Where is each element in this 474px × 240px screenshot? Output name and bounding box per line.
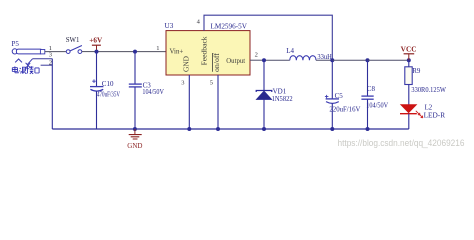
capacitor C10 bottom plate (90, 89, 103, 91)
wire C5 branch top (331, 60, 333, 98)
svg-text:3: 3 (181, 79, 184, 86)
junction ground VD1 (262, 127, 266, 131)
svg-text:220uF/16V: 220uF/16V (329, 106, 360, 113)
svg-text:GND: GND (182, 56, 190, 72)
wire C10 branch bottom (96, 91, 98, 129)
power +6V stub (96, 45, 98, 51)
svg-text:5: 5 (210, 79, 213, 86)
svg-text:L4: L4 (286, 47, 294, 55)
capacitor C10 top plate (90, 86, 103, 88)
svg-text:Feedback: Feedback (201, 36, 209, 66)
svg-text:C8: C8 (367, 85, 376, 93)
capacitor C8 bottom plate (361, 98, 373, 100)
svg-text:GND: GND (127, 142, 142, 150)
LED L2 cathode bar (400, 113, 417, 115)
wire U3 pin2 to VD1 node (250, 59, 264, 61)
connector P5 tip arrowhead (26, 63, 31, 68)
ground symbol stem (134, 129, 136, 134)
capacitor C5 plus sign (325, 95, 329, 98)
svg-text:C5: C5 (335, 92, 344, 100)
op-amp U3 regulator body (166, 31, 250, 75)
svg-text:+6V: +6V (89, 36, 103, 44)
svg-text:C3: C3 (143, 81, 152, 89)
wire C10 branch top (96, 52, 98, 87)
svg-text:R9: R9 (412, 67, 421, 75)
LED L2 triangle (401, 105, 416, 113)
wire left return vertical (51, 59, 53, 129)
wire input rail to U3 (97, 51, 167, 53)
switch SW1 right contact (78, 50, 82, 54)
wire VD1 cathode (263, 60, 265, 90)
svg-text:VCC: VCC (401, 46, 417, 54)
wire R9 to LED (408, 85, 410, 105)
svg-text:LED-R: LED-R (424, 113, 446, 120)
svg-text:104/50V: 104/50V (142, 89, 164, 96)
wire C3 branch top (134, 52, 136, 84)
junction +6V node (95, 50, 99, 54)
wire C5 branch bottom (331, 103, 333, 129)
junction output at VD1 (262, 58, 266, 62)
wire C8 node to VCC node (368, 59, 409, 61)
capacitor C3 top plate (129, 83, 142, 85)
svg-text:SW1: SW1 (66, 36, 80, 44)
wire feedback pin4 loop (204, 15, 332, 60)
LED L2 emission arrows (416, 111, 423, 118)
wire VD1 node to inductor (264, 59, 290, 61)
capacitor C8 top plate (361, 95, 373, 97)
capacitor C5 top plate (326, 98, 339, 100)
diode VD1 triangle (257, 91, 272, 99)
wire U3 pin5 to ground rail (217, 75, 219, 129)
wire VD1 anode to ground rail (263, 99, 265, 129)
wire U3 pin3 to ground rail (188, 75, 190, 129)
svg-text:L2: L2 (425, 105, 433, 112)
svg-text:2: 2 (255, 51, 258, 58)
connector P5 tip arrow shaft (27, 59, 32, 65)
power VCC bar (404, 53, 415, 55)
resistor R9 body (405, 67, 412, 85)
svg-text:C10: C10 (102, 80, 114, 88)
junction ground pin3 (187, 127, 191, 131)
ground symbol bars (129, 135, 142, 139)
connector P5 pin square (40, 50, 44, 54)
svg-text:3: 3 (49, 52, 52, 59)
wire C8 branch top (367, 60, 369, 96)
svg-text:104/50V: 104/50V (366, 103, 388, 110)
wire pin2 horizontal (41, 64, 53, 66)
inductor L4 coil (290, 56, 316, 61)
power +6V bar (92, 44, 101, 46)
capacitor C10 plus sign (92, 79, 96, 83)
power VCC stub (408, 54, 410, 60)
wire input rail left segment (45, 51, 67, 53)
wire inductor to C5 node (316, 59, 332, 61)
junction ground C3 (133, 127, 137, 131)
switch SW1 lever (70, 46, 82, 52)
U3 on/off overline (211, 53, 213, 72)
junction ground pin5 (216, 127, 220, 131)
switch SW1 left contact (66, 50, 70, 54)
svg-text:U3: U3 (165, 22, 174, 30)
junction C8 node (366, 58, 370, 62)
svg-text:on/off: on/off (213, 52, 221, 72)
junction C5 feedback node (330, 58, 334, 62)
svg-text:Output: Output (226, 57, 245, 65)
junction C3 tap (133, 50, 137, 54)
wire C8 branch bottom (367, 100, 369, 130)
wire LED to ground rail (408, 114, 410, 129)
svg-text:330R0.125W: 330R0.125W (411, 87, 446, 94)
svg-text:1N5822: 1N5822 (272, 96, 294, 103)
svg-text:Vin+: Vin+ (170, 47, 184, 55)
svg-text:VD1: VD1 (273, 88, 287, 96)
label 电源接口 (12, 66, 39, 74)
connector P5 barrel circle (12, 49, 17, 54)
svg-text:1: 1 (156, 45, 159, 52)
wire C3 branch bottom (134, 87, 136, 129)
wire switch to +6V junction (82, 51, 97, 53)
wire pin3 horizontal (33, 58, 53, 60)
junction ground C8 (366, 127, 370, 131)
svg-text:LM2596-5V: LM2596-5V (211, 22, 248, 30)
wire VCC node to R9 (408, 60, 410, 67)
capacitor C5 bottom plate (326, 102, 339, 104)
connector P5 sleeve caret (15, 59, 22, 62)
svg-text:470uF/35V: 470uF/35V (97, 92, 120, 99)
diode VD1 cathode bar (256, 91, 272, 93)
junction ground C5 (330, 127, 334, 131)
svg-text:https://blog.csdn.net/qq_42069: https://blog.csdn.net/qq_42069216 (338, 138, 465, 148)
svg-text:P5: P5 (12, 40, 20, 48)
wire ground rail (52, 128, 409, 130)
connector P5 barrel body (16, 49, 42, 54)
wire C5 node to C8 node (332, 59, 367, 61)
junction VCC node (407, 58, 411, 62)
capacitor C3 bottom plate (129, 86, 142, 88)
